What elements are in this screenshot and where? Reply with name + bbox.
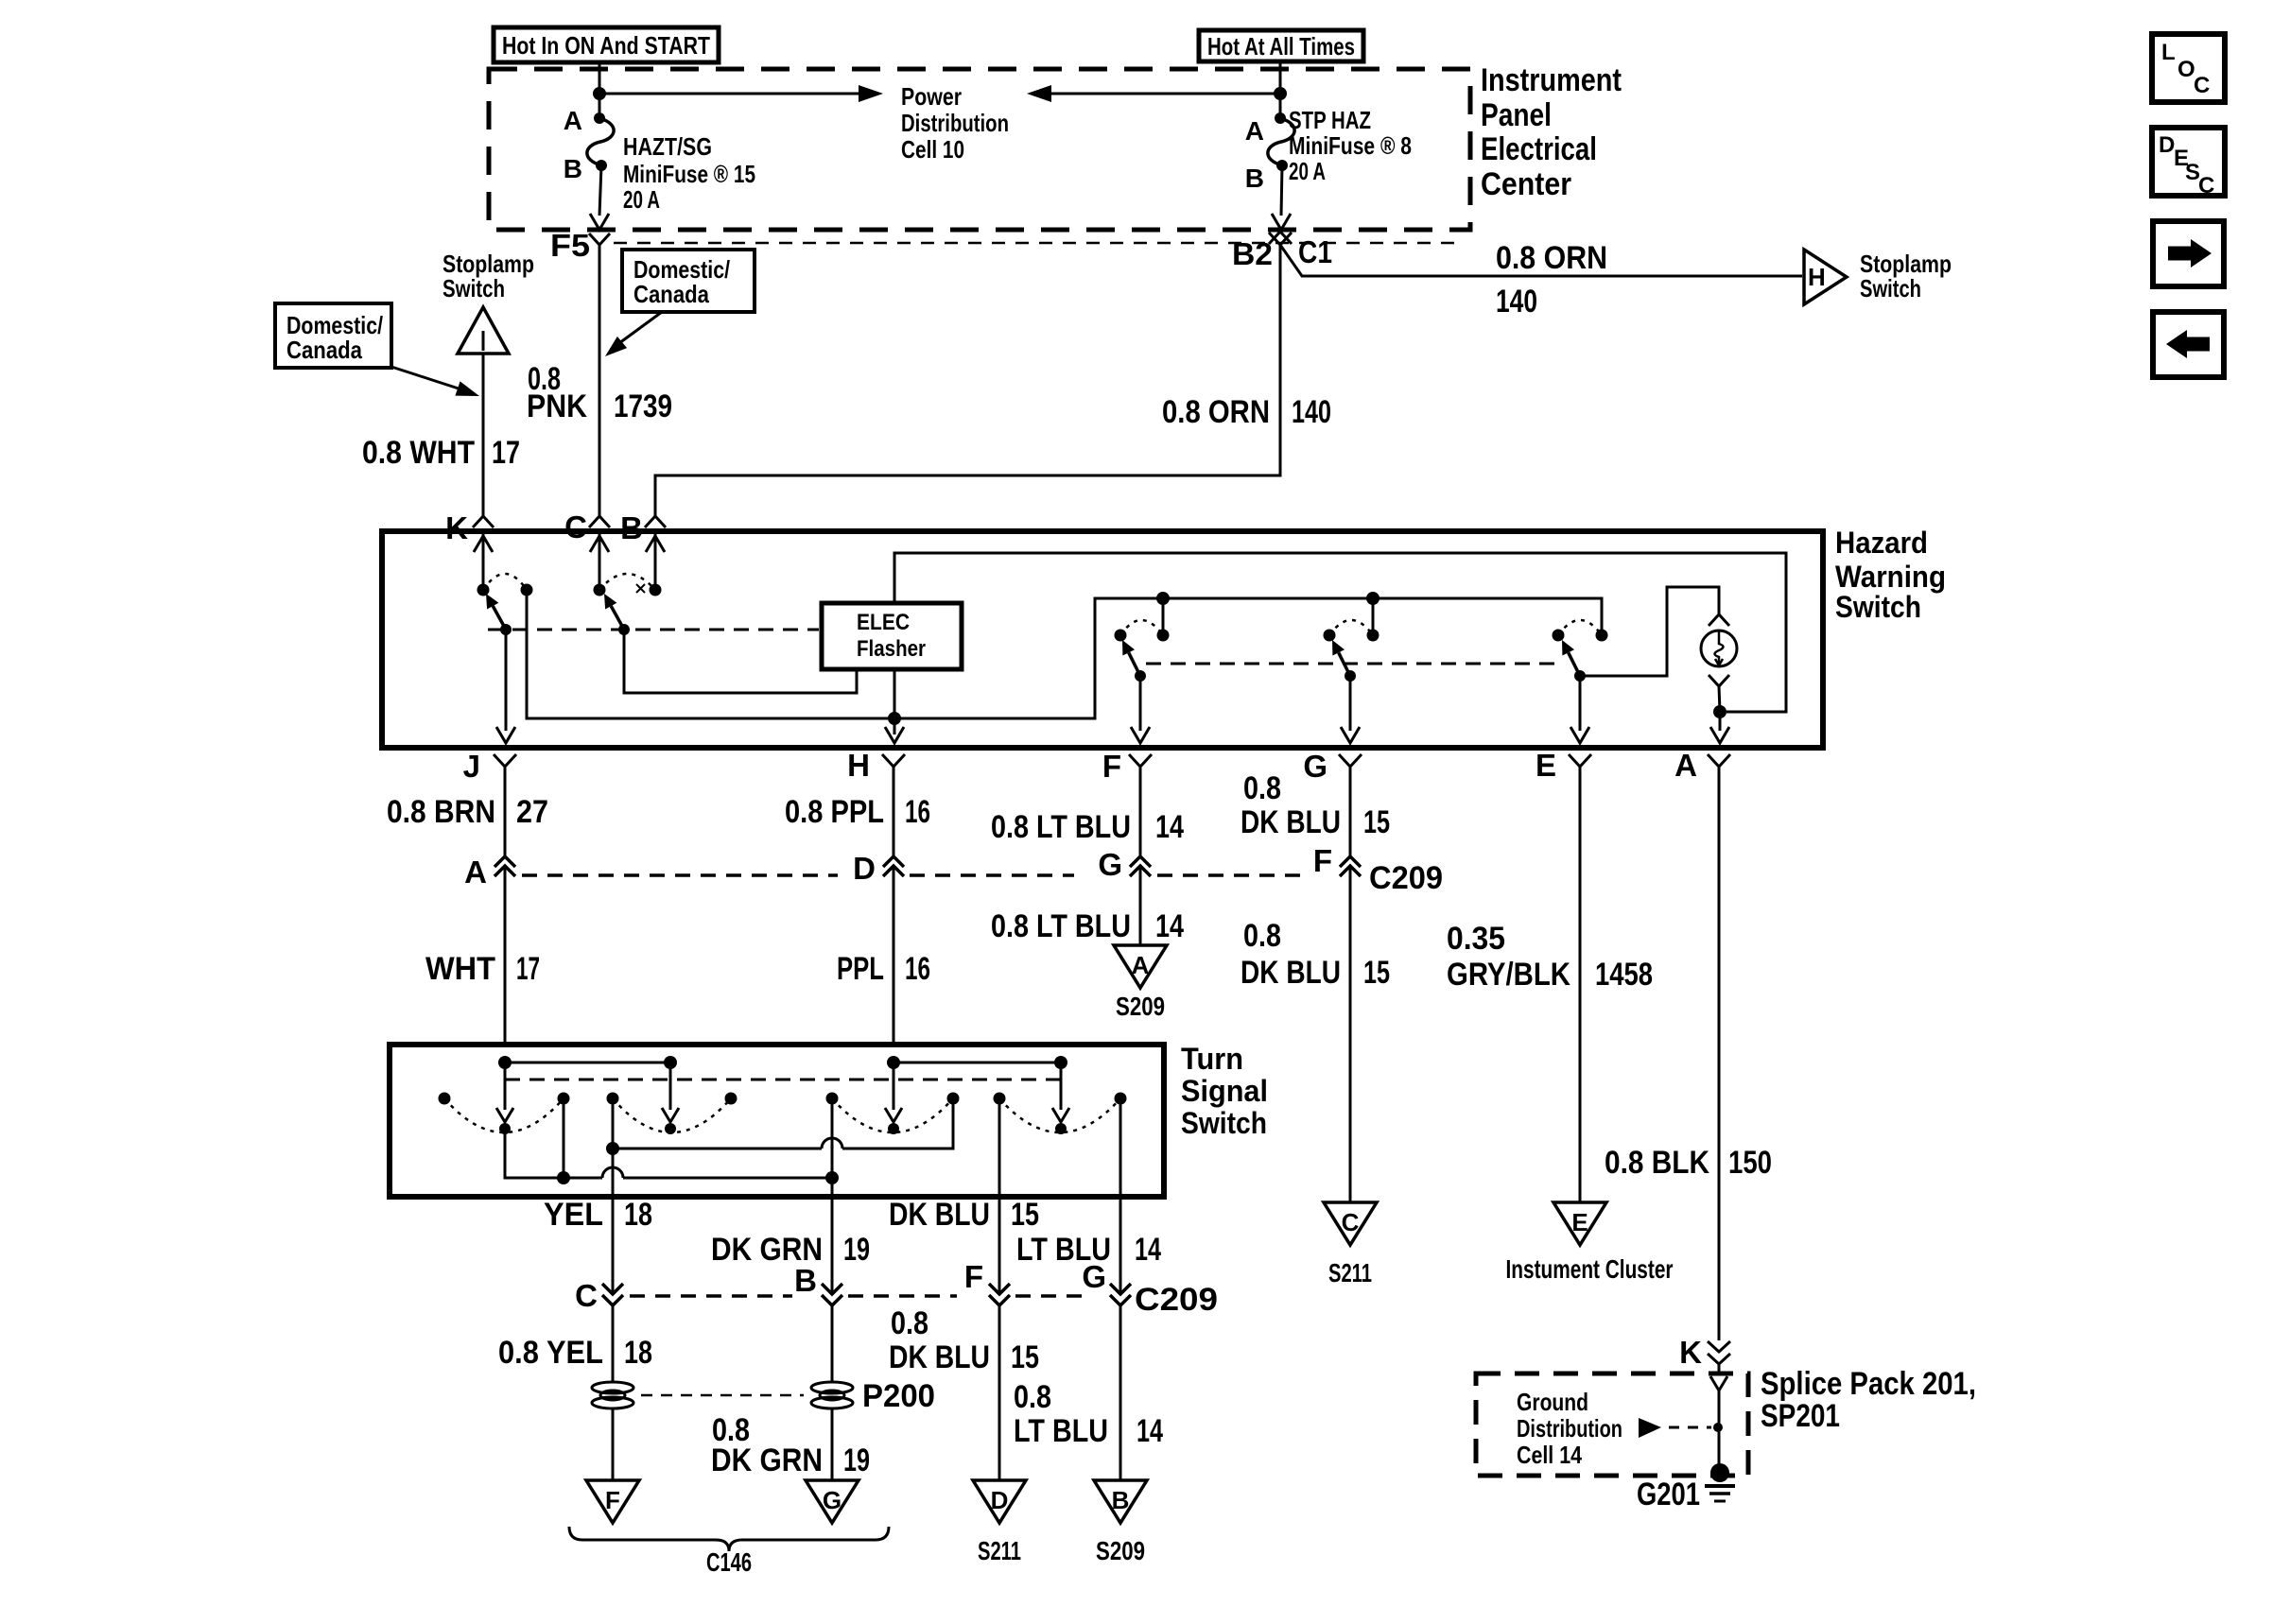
wire into splice pack xyxy=(1710,1364,1727,1473)
svg-text:DK BLU: DK BLU xyxy=(889,1339,990,1375)
connector C209 pin G xyxy=(1098,847,1151,882)
connector H (hazard sw bottom) xyxy=(847,748,905,783)
svg-text:15: 15 xyxy=(1363,804,1390,840)
leader arrow to PNK wire xyxy=(605,312,662,356)
switch lever K xyxy=(493,606,506,630)
svg-text:14: 14 xyxy=(1155,908,1184,944)
svg-text:B: B xyxy=(564,154,582,183)
svg-text:Cell 14: Cell 14 xyxy=(1517,1441,1582,1469)
wire label DK GRN 19 xyxy=(711,1232,870,1268)
wire label 0.8 LT BLU 14 (lower) xyxy=(991,908,1184,944)
switch pole C contacts xyxy=(594,574,662,596)
wire LT BLU 14 xyxy=(1119,1197,1122,1294)
dashed hazard knob linkage (right) xyxy=(1146,663,1560,665)
wire LT BLU contact drop xyxy=(1119,1098,1122,1197)
node flasher/H junction xyxy=(888,712,901,725)
svg-text:Flasher: Flasher xyxy=(857,636,926,662)
wire 0.8 LT BLU 14 to S209 xyxy=(1119,1305,1122,1480)
svg-text:C: C xyxy=(2198,173,2214,199)
dashed hazard knob linkage (left) xyxy=(488,629,819,631)
Ground Distribution Cell 14 dashed box xyxy=(1476,1373,1748,1476)
DESC icon box xyxy=(2152,128,2225,199)
wire label WHT 17 xyxy=(425,951,540,987)
wire label 0.35 GRY/BLK 1458 xyxy=(1447,921,1653,993)
svg-text:15: 15 xyxy=(1011,1197,1039,1233)
wire 0.8 ORN 140 to stoplamp switch xyxy=(1280,245,1802,276)
svg-text:H: H xyxy=(1808,263,1826,291)
Hazard Warning Switch box xyxy=(382,531,1823,748)
svg-text:C146: C146 xyxy=(706,1547,752,1577)
connector C209 pin G (row 2) xyxy=(1082,1259,1131,1305)
switch lever F xyxy=(1129,652,1140,676)
svg-text:0.8 WHT: 0.8 WHT xyxy=(362,435,475,471)
svg-text:A: A xyxy=(1674,748,1697,783)
svg-text:Instrument: Instrument xyxy=(1481,62,1622,98)
svg-text:Hot At All Times: Hot At All Times xyxy=(1207,32,1355,60)
dashed turn-signal linkage xyxy=(505,1079,1061,1081)
svg-text:Switch: Switch xyxy=(1835,590,1921,624)
svg-text:STP HAZ: STP HAZ xyxy=(1289,106,1371,134)
wire C feed inside box xyxy=(590,534,609,590)
svg-text:0.8 LT BLU: 0.8 LT BLU xyxy=(991,908,1131,944)
grommet P200 (YEL) xyxy=(592,1382,633,1408)
svg-text:MiniFuse ® 8: MiniFuse ® 8 xyxy=(1289,131,1412,160)
svg-text:Ground: Ground xyxy=(1517,1388,1588,1416)
svg-text:18: 18 xyxy=(624,1197,652,1233)
node lamp/top-bus junction xyxy=(1713,705,1726,718)
wire fuse B to F5 xyxy=(590,165,609,230)
connector C209 pin A xyxy=(464,855,515,890)
connector C146 pin G (triangle G) xyxy=(806,1480,859,1523)
fuse value label HAZT/SG MiniFuse 15 20 A xyxy=(623,132,755,214)
wire flasher feed and top bus xyxy=(894,553,1786,712)
connector B (hazard sw) xyxy=(620,510,666,545)
Turn Signal Switch label xyxy=(1181,1042,1268,1140)
node J feed right xyxy=(664,1056,677,1069)
wire label DK BLU 15 xyxy=(889,1197,1039,1233)
wire H feed bus xyxy=(894,1062,1061,1064)
wire label 0.8 LT BLU 14 (below C209) xyxy=(1014,1379,1163,1449)
wire contact 596 drop xyxy=(563,1098,565,1178)
wire label 0.8 WHT 17 xyxy=(362,435,520,471)
svg-text:17: 17 xyxy=(516,951,540,987)
connector E instrument cluster (triangle E) xyxy=(1506,1202,1674,1284)
svg-text:YEL: YEL xyxy=(544,1197,603,1233)
connector F5 xyxy=(550,228,610,263)
svg-text:20 A: 20 A xyxy=(623,185,660,214)
svg-text:S209: S209 xyxy=(1096,1536,1145,1565)
Instrument Panel Electrical Center label xyxy=(1481,62,1622,202)
svg-text:S209: S209 xyxy=(1116,992,1165,1021)
svg-text:Electrical: Electrical xyxy=(1481,131,1597,167)
svg-text:G: G xyxy=(1303,749,1327,784)
svg-text:Hot In ON And START: Hot In ON And START xyxy=(502,31,710,60)
svg-text:C209: C209 xyxy=(1135,1282,1218,1318)
wiper travel arcs xyxy=(444,1098,1120,1132)
C209 dashed connector line (row 2) xyxy=(630,1294,792,1298)
svg-text:C: C xyxy=(564,510,587,544)
arrow A output xyxy=(1710,712,1729,743)
svg-text:18: 18 xyxy=(624,1335,652,1371)
svg-text:C: C xyxy=(2194,73,2210,98)
LOC icon box xyxy=(2152,34,2225,102)
Turn Signal Switch box xyxy=(390,1045,1164,1197)
svg-text:Splice Pack 201,: Splice Pack 201, xyxy=(1761,1366,1976,1402)
svg-text:15: 15 xyxy=(1363,955,1390,991)
wire DK GRN below grommet xyxy=(831,1408,834,1480)
wire J feed bus xyxy=(505,1062,670,1064)
wire label 0.8 ORN 140 (vertical) xyxy=(1162,394,1331,430)
wire stub to G contact xyxy=(1372,598,1375,635)
svg-text:ELEC: ELEC xyxy=(857,610,910,635)
svg-text:S211: S211 xyxy=(978,1536,1021,1565)
right-arrow icon box xyxy=(2153,221,2224,286)
node bus/G stub xyxy=(1366,592,1379,605)
wire B feed inside box xyxy=(646,534,665,590)
wire 0.8 DK GRN 19 xyxy=(831,1305,834,1382)
wire DK BLU 15 xyxy=(998,1197,1001,1294)
svg-text:0.8: 0.8 xyxy=(1243,770,1281,806)
svg-text:G: G xyxy=(1098,847,1122,882)
arrow H wiper 2 xyxy=(1052,1063,1069,1134)
svg-text:Switch: Switch xyxy=(1181,1106,1267,1140)
svg-text:A: A xyxy=(564,106,582,135)
svg-text:B: B xyxy=(620,510,643,545)
wire 0.8 DK BLU 15 (G) xyxy=(1349,767,1352,856)
svg-text:J: J xyxy=(463,749,480,784)
svg-text:Distribution: Distribution xyxy=(1517,1414,1622,1443)
svg-text:A: A xyxy=(464,855,487,890)
wire YEL contact drop xyxy=(612,1098,615,1197)
wire 0.8 LT BLU 14 to S209 xyxy=(1139,866,1142,945)
connector I stoplamp switch (up triangle) xyxy=(458,307,509,354)
wire stub to F contact xyxy=(1162,598,1165,635)
wire from Hot In ON And START into fuse xyxy=(599,62,601,118)
svg-text:1458: 1458 xyxy=(1595,957,1653,993)
wire lever F to F output xyxy=(1131,676,1150,743)
svg-text:Turn: Turn xyxy=(1181,1042,1243,1076)
wire label 0.8 BLK 150 xyxy=(1605,1145,1772,1181)
connector C (hazard sw) xyxy=(564,510,610,544)
svg-text:WHT: WHT xyxy=(425,951,495,987)
wire K dot2 bus to right contacts xyxy=(527,590,1602,718)
svg-text:H: H xyxy=(847,748,870,783)
svg-text:0.8 BLK: 0.8 BLK xyxy=(1605,1145,1709,1181)
svg-text:27: 27 xyxy=(516,794,548,830)
svg-text:20 A: 20 A xyxy=(1289,157,1326,185)
connector E (hazard sw bottom) xyxy=(1536,748,1591,783)
splice S211 (triangle D) xyxy=(973,1480,1026,1565)
splice S209 (triangle B) xyxy=(1094,1480,1147,1565)
svg-text:Hazard: Hazard xyxy=(1835,526,1928,560)
svg-text:Canada: Canada xyxy=(286,336,362,364)
wire label 0.8 YEL 18 xyxy=(498,1335,652,1371)
svg-text:G: G xyxy=(823,1486,842,1514)
connector C209 pin B (row 2) xyxy=(794,1263,842,1305)
fuse STP HAZ MiniFuse 8 xyxy=(1268,112,1294,171)
node: power distribution tap (left) xyxy=(593,87,606,100)
svg-text:F: F xyxy=(1313,843,1332,878)
svg-text:PPL: PPL xyxy=(837,951,884,987)
svg-text:DK BLU: DK BLU xyxy=(889,1197,990,1233)
node bus/F stub xyxy=(1156,592,1170,605)
svg-text:SP201: SP201 xyxy=(1761,1398,1840,1434)
wire 0.8 DK BLU 15 to S211 xyxy=(1349,866,1352,1202)
connector C146 pin F (triangle F) xyxy=(586,1480,639,1523)
leader arrow to WHT wire xyxy=(391,367,479,396)
svg-text:A: A xyxy=(1245,116,1264,146)
wire label 0.8 PNK 1739 xyxy=(527,361,672,424)
Instrument Panel Electrical Center dashed box xyxy=(489,69,1470,230)
label box "Hot At All Times" xyxy=(1199,30,1363,61)
svg-text:F: F xyxy=(964,1259,983,1294)
svg-text:0.35: 0.35 xyxy=(1447,921,1505,957)
svg-text:0.8 ORN: 0.8 ORN xyxy=(1162,394,1270,430)
svg-text:F5: F5 xyxy=(550,228,590,263)
svg-text:GRY/BLK: GRY/BLK xyxy=(1447,957,1570,993)
svg-text:F: F xyxy=(605,1486,620,1514)
svg-text:G: G xyxy=(1082,1259,1106,1294)
pilot lamp connector bottom xyxy=(1709,675,1729,686)
wire 0.8 LT BLU 14 (F) xyxy=(1139,767,1142,856)
wire label YEL 18 xyxy=(544,1197,652,1233)
wire 0.8 PPL 16 (H) xyxy=(893,767,895,856)
node YEL/1008 bus xyxy=(606,1142,619,1155)
svg-text:C: C xyxy=(1342,1208,1360,1236)
svg-text:0.8 ORN: 0.8 ORN xyxy=(1496,240,1607,276)
svg-text:16: 16 xyxy=(905,951,930,987)
Stoplamp Switch label (right) xyxy=(1860,250,1952,302)
wire PPL 16 (to turn signal sw) xyxy=(893,866,895,1045)
dashed grommet line xyxy=(641,1394,804,1397)
label box "Hot In ON And START" xyxy=(494,27,719,62)
contact dots turn signal switch xyxy=(439,1093,1127,1105)
wire 0.8 BLK 150 (A) xyxy=(1718,767,1721,1340)
svg-text:17: 17 xyxy=(492,435,520,471)
arrow J wiper 2 xyxy=(662,1063,679,1134)
svg-text:19: 19 xyxy=(843,1232,870,1268)
wire fuse B to B2 xyxy=(1272,165,1291,230)
fuse HAZT/SG MiniFuse 15 xyxy=(587,112,614,171)
Hazard Warning Switch label xyxy=(1835,526,1946,624)
connector F (hazard sw bottom) xyxy=(1102,749,1152,784)
svg-text:Cell 10: Cell 10 xyxy=(901,135,964,164)
svg-text:D: D xyxy=(991,1486,1009,1514)
svg-text:HAZT/SG: HAZT/SG xyxy=(623,132,712,161)
svg-text:0.8 YEL: 0.8 YEL xyxy=(498,1335,603,1371)
svg-text:0.8 PPL: 0.8 PPL xyxy=(785,794,884,830)
svg-text:15: 15 xyxy=(1011,1339,1039,1375)
connector J (hazard sw bottom) xyxy=(463,749,516,784)
wire lamp to A output xyxy=(1719,686,1720,712)
svg-text:Instument Cluster: Instument Cluster xyxy=(1506,1254,1674,1284)
wire lever E to pilot lamp xyxy=(1580,587,1719,676)
label box Domestic/Canada (left) xyxy=(275,303,391,368)
svg-text:MiniFuse ® 15: MiniFuse ® 15 xyxy=(623,160,755,188)
Stoplamp Switch label (left) xyxy=(442,250,534,302)
arrow to Power Distribution Cell 10 (right) xyxy=(1027,85,1280,102)
connector K splice pack xyxy=(1679,1335,1730,1370)
svg-text:14: 14 xyxy=(1136,1413,1163,1449)
svg-text:Signal: Signal xyxy=(1181,1074,1268,1108)
wire label 0.8 ORN 140 (horizontal) xyxy=(1496,240,1607,320)
svg-text:LT BLU: LT BLU xyxy=(1014,1413,1108,1449)
wire label 0.8 DK BLU 15 (below C209) xyxy=(889,1305,1039,1375)
wire 0.35 GRY/BLK 1458 (E) xyxy=(1579,767,1582,1202)
svg-text:L: L xyxy=(2161,40,2176,65)
ELEC Flasher box xyxy=(822,603,962,669)
svg-text:Distribution: Distribution xyxy=(901,109,1009,137)
svg-text:Switch: Switch xyxy=(1860,274,1921,302)
fuse value label STP HAZ MiniFuse 8 20 A xyxy=(1289,106,1412,185)
node J feed xyxy=(498,1056,512,1069)
svg-text:B: B xyxy=(1245,164,1264,193)
svg-text:C1: C1 xyxy=(1298,234,1332,269)
svg-text:14: 14 xyxy=(1155,809,1184,845)
wire WHT 17 (to turn signal sw) xyxy=(504,866,507,1045)
connector C209 pin F xyxy=(1313,843,1361,878)
svg-text:S211: S211 xyxy=(1328,1258,1372,1287)
node: power distribution tap (right) xyxy=(1274,87,1287,100)
svg-text:140: 140 xyxy=(1292,394,1331,430)
switch E contacts xyxy=(1553,620,1608,642)
wire flasher output to lamp bus xyxy=(894,669,896,734)
svg-text:B2: B2 xyxy=(1232,236,1273,271)
wire 0.8 PNK 1739 from F5 to hazard switch C xyxy=(599,245,601,516)
node H feed right xyxy=(1054,1056,1067,1069)
svg-text:A: A xyxy=(1132,951,1150,979)
svg-text:0.8: 0.8 xyxy=(1243,918,1281,954)
connector G (hazard sw bottom) xyxy=(1303,749,1362,784)
connector C209 pin C (row 2) xyxy=(575,1278,623,1313)
Power Distribution Cell 10 label xyxy=(901,82,1009,164)
svg-text:K: K xyxy=(1679,1335,1702,1370)
svg-text:Canada: Canada xyxy=(633,280,709,308)
wire label 0.8 PPL 16 xyxy=(785,794,930,830)
svg-text:C209: C209 xyxy=(1369,860,1443,896)
wire label 0.8 DK GRN 19 xyxy=(711,1412,870,1478)
switch lever E xyxy=(1569,652,1580,676)
wire lever C to ELEC flasher xyxy=(624,630,857,693)
wire DK GRN contact drop xyxy=(831,1098,834,1197)
svg-text:1739: 1739 xyxy=(614,389,672,424)
wire K feed inside box xyxy=(474,534,493,590)
pilot lamp connector top xyxy=(1709,614,1729,626)
C209 dashed connector line (row 1) xyxy=(522,873,838,877)
svg-text:F: F xyxy=(1102,749,1121,784)
wire lever K to J output xyxy=(496,630,515,743)
svg-text:0.8 LT BLU: 0.8 LT BLU xyxy=(991,809,1131,845)
splice S211 (triangle C) xyxy=(1324,1202,1377,1287)
wire J wiper to DK GRN bus xyxy=(505,1129,839,1184)
Ground Distribution Cell 14 label xyxy=(1517,1388,1622,1469)
ground distribution leader arrow xyxy=(1639,1418,1723,1438)
wire label 0.8 DK BLU 15 xyxy=(1241,770,1390,840)
svg-text:DK BLU: DK BLU xyxy=(1241,804,1341,840)
arrow J wiper xyxy=(496,1063,513,1134)
svg-text:B: B xyxy=(1112,1486,1130,1514)
svg-text:D: D xyxy=(853,851,876,886)
wire 0.8 YEL to C146 F xyxy=(612,1408,615,1480)
svg-text:P200: P200 xyxy=(862,1378,935,1414)
svg-text:14: 14 xyxy=(1135,1232,1161,1268)
svg-text:O: O xyxy=(2178,57,2195,82)
svg-text:G201: G201 xyxy=(1637,1477,1700,1512)
wire label PPL 16 xyxy=(837,951,930,987)
wire 0.8 DK BLU 15 to S211 xyxy=(998,1305,1001,1480)
svg-text:DK GRN: DK GRN xyxy=(711,1443,823,1478)
arrow to Power Distribution Cell 10 (left) xyxy=(599,85,883,102)
wire DK BLU contact drop xyxy=(998,1098,1001,1197)
splice S209 (triangle A) xyxy=(1114,945,1167,1021)
svg-text:E: E xyxy=(1571,1208,1588,1236)
connector face dashed line under IP electrical center xyxy=(614,242,1456,245)
wire from Hot At All Times into fuse xyxy=(1279,61,1282,118)
wire label LT BLU 14 xyxy=(1016,1232,1161,1268)
svg-text:Power: Power xyxy=(901,82,962,111)
wire 0.8 ORN 140 from C1 down to hazard switch B xyxy=(655,245,1280,516)
svg-text:Center: Center xyxy=(1481,166,1571,202)
connector C209 pin D xyxy=(853,851,904,886)
svg-text:PNK: PNK xyxy=(527,389,587,424)
arrow H wiper xyxy=(885,1063,902,1134)
wire 0.8 BRN 27 (J) xyxy=(504,767,507,856)
svg-text:B: B xyxy=(794,1263,817,1298)
switch pole K contacts xyxy=(477,574,533,596)
wire YEL bus to contact 1008 xyxy=(613,1098,953,1149)
svg-text:150: 150 xyxy=(1728,1145,1772,1181)
svg-text:0.8: 0.8 xyxy=(1014,1379,1051,1415)
wire label 0.8 LT BLU 14 xyxy=(991,809,1184,845)
svg-text:19: 19 xyxy=(843,1443,870,1478)
pilot lamp xyxy=(1701,631,1737,666)
wire lever G to G output xyxy=(1341,676,1360,743)
wire label 0.8 BRN 27 xyxy=(387,794,548,830)
svg-text:E: E xyxy=(1536,748,1556,783)
wire 0.8 WHT 17 from stoplamp to hazard switch K xyxy=(482,354,485,516)
connector C209 pin F (row 2) xyxy=(964,1259,1010,1305)
switch lever G xyxy=(1339,652,1350,676)
wire DK GRN 19 xyxy=(831,1197,834,1294)
connector H stoplamp switch (right arrow triangle) xyxy=(1804,250,1847,304)
svg-text:DK BLU: DK BLU xyxy=(1241,955,1341,991)
arrow H output xyxy=(885,727,904,743)
wire lever E to E output xyxy=(1570,676,1589,743)
connector K (hazard sw) xyxy=(445,510,494,545)
connector B2 / C1 xyxy=(1232,232,1332,271)
wire YEL 18 xyxy=(612,1197,615,1294)
label box Domestic/Canada (right) xyxy=(622,250,755,312)
connector A (hazard sw bottom) xyxy=(1674,748,1730,783)
svg-text:0.8: 0.8 xyxy=(891,1305,928,1341)
svg-text:0.8 BRN: 0.8 BRN xyxy=(387,794,495,830)
svg-text:Panel: Panel xyxy=(1481,97,1552,133)
left-arrow icon box xyxy=(2153,312,2224,377)
wire 0.8 YEL 18 xyxy=(612,1305,615,1382)
switch lever C xyxy=(611,606,624,630)
svg-text:16: 16 xyxy=(905,794,930,830)
switch F contacts xyxy=(1115,620,1170,642)
svg-text:140: 140 xyxy=(1496,284,1537,320)
svg-text:D: D xyxy=(2159,132,2175,158)
grommet P200 (DK GRN) xyxy=(811,1382,853,1408)
C146 brace xyxy=(569,1527,889,1551)
svg-text:C: C xyxy=(575,1278,598,1313)
Splice Pack 201 SP201 label xyxy=(1761,1366,1976,1434)
svg-text:Warning: Warning xyxy=(1835,560,1946,594)
svg-text:Switch: Switch xyxy=(442,274,505,302)
switch G contacts xyxy=(1324,620,1379,642)
